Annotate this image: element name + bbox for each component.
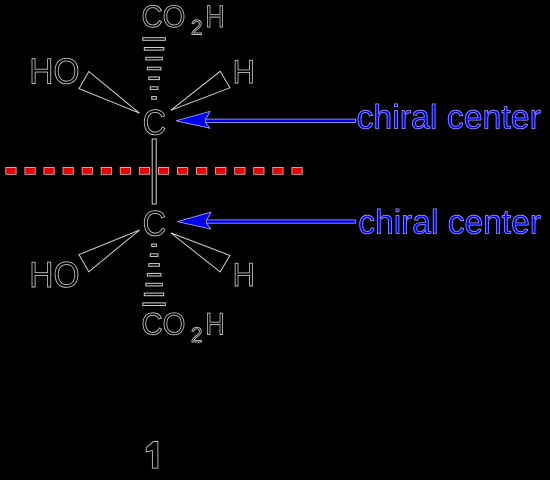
svg-text:2: 2 <box>191 17 203 40</box>
hashed wedge bond C2 to bottom CO2H <box>143 244 166 306</box>
svg-text:H: H <box>233 53 255 90</box>
svg-text:H: H <box>205 307 225 342</box>
compound number 1 <box>146 442 158 469</box>
svg-text:CO: CO <box>142 307 186 342</box>
svg-text:H: H <box>233 256 255 293</box>
svg-text:2: 2 <box>191 324 203 347</box>
solid wedge bond C2 to bottom H <box>171 233 230 272</box>
svg-text:HO: HO <box>29 51 79 92</box>
svg-text:HO: HO <box>29 254 79 295</box>
solid wedge bond C1 to top H <box>171 71 230 110</box>
blue arrow to C1 (arrowhead) <box>176 111 210 128</box>
svg-text:H: H <box>205 0 225 34</box>
red dashed mirror line <box>6 167 302 174</box>
blue arrow to C2 (arrowhead) <box>177 212 211 229</box>
label CO2H (bottom carboxyl group) <box>142 307 225 347</box>
C1-C2 bond (vertical) <box>152 139 156 204</box>
svg-text:chiral center: chiral center <box>357 99 541 137</box>
hashed wedge bond C1 to top CO2H <box>143 38 166 99</box>
solid wedge bond C1 to top OH <box>79 72 140 114</box>
svg-text:C: C <box>143 102 167 142</box>
blue arrow to C1 (shaft) <box>206 119 356 122</box>
svg-text:C: C <box>143 204 167 244</box>
blue arrow to C2 (shaft) <box>207 220 356 223</box>
label CO2H (top carboxyl group) <box>142 0 225 40</box>
svg-text:CO: CO <box>142 0 186 34</box>
svg-text:chiral center: chiral center <box>358 204 541 242</box>
solid wedge bond C2 to bottom OH <box>79 230 140 272</box>
